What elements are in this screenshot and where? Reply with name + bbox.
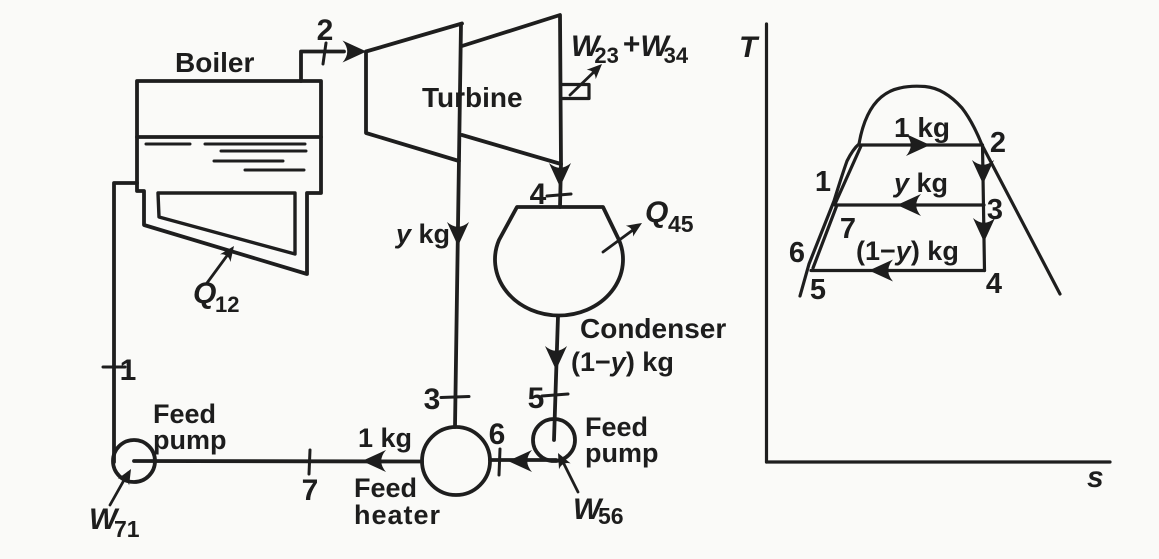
flow arrow 1 kg left xyxy=(362,450,386,472)
svg-text:1: 1 xyxy=(815,166,831,198)
svg-text:heater: heater xyxy=(354,500,441,530)
svg-text:1 kg: 1 kg xyxy=(894,112,950,143)
svg-text:Q: Q xyxy=(645,196,668,229)
svg-text:3: 3 xyxy=(424,383,441,416)
feed heater circle xyxy=(422,427,490,495)
pipe pump to heater xyxy=(490,458,556,462)
svg-text:6: 6 xyxy=(789,237,805,269)
arrowhead Q45 xyxy=(626,218,646,237)
feedwater line heater to left pump xyxy=(134,459,422,463)
state 1 tick xyxy=(103,366,125,369)
pump sliver 1 xyxy=(835,146,861,204)
svg-text:1: 1 xyxy=(120,354,137,387)
flow arrow into turbine at 2 xyxy=(343,41,367,63)
arrowhead Q12 xyxy=(220,242,239,262)
state 6 tick xyxy=(499,449,500,475)
flow arrow top right xyxy=(906,134,930,156)
svg-text:7: 7 xyxy=(302,474,319,507)
heat arrow line Q45 xyxy=(603,227,637,252)
svg-text:y kg: y kg xyxy=(394,219,450,249)
flow arrow bottom left xyxy=(869,260,893,282)
process 7-3 middle line xyxy=(835,203,984,206)
turbine exhaust pipe xyxy=(560,164,561,207)
svg-text:W23+W34: W23+W34 xyxy=(571,28,689,68)
svg-text:T: T xyxy=(739,31,760,64)
feed pump left circle xyxy=(113,440,155,482)
svg-text:s: s xyxy=(1087,461,1104,494)
turbine shaft stub xyxy=(562,85,589,99)
state 4 tick xyxy=(547,194,571,196)
svg-text:Q: Q xyxy=(193,277,216,310)
svg-text:12: 12 xyxy=(215,292,239,317)
arrowhead W71 xyxy=(118,466,137,485)
pump work arrow line W71 xyxy=(110,473,128,505)
svg-text:4: 4 xyxy=(986,268,1002,300)
condensate pipe xyxy=(554,316,558,440)
svg-text:pump: pump xyxy=(585,438,659,468)
svg-text:3: 3 xyxy=(987,194,1003,226)
svg-text:Turbine: Turbine xyxy=(422,82,523,113)
flow arrow pump to heater left xyxy=(508,450,532,472)
svg-text:5: 5 xyxy=(528,382,545,415)
svg-text:(1−y) kg: (1−y) kg xyxy=(571,347,674,377)
steam pipe boiler to turbine xyxy=(301,52,344,82)
boiler furnace tube xyxy=(158,193,295,254)
svg-text:71: 71 xyxy=(114,516,140,542)
process 2-4 right line xyxy=(983,145,985,271)
arrowhead W23 xyxy=(587,59,607,79)
water level dashes xyxy=(146,144,306,170)
state 3 tick xyxy=(441,397,469,398)
turbine HP stage xyxy=(366,24,462,162)
svg-text:5: 5 xyxy=(810,274,826,306)
state 7 tick xyxy=(309,450,310,474)
boiler drum line xyxy=(137,135,321,139)
svg-text:2: 2 xyxy=(990,127,1006,159)
heat arrow line Q12 xyxy=(207,253,229,283)
process 1-2 top line xyxy=(860,143,982,146)
svg-text:Boiler: Boiler xyxy=(175,47,254,78)
feed pump right circle xyxy=(533,419,575,461)
flow arrow 2-3 down xyxy=(972,160,994,184)
saturation dome xyxy=(800,86,1060,296)
pump work arrow line W56 xyxy=(563,462,578,492)
svg-text:4: 4 xyxy=(530,178,547,211)
flow arrow condensate down xyxy=(545,346,567,370)
T axis xyxy=(765,24,768,462)
svg-text:45: 45 xyxy=(668,211,694,237)
svg-text:6: 6 xyxy=(489,418,506,451)
arrowhead W56 xyxy=(552,450,570,469)
condenser xyxy=(495,207,623,315)
svg-text:7: 7 xyxy=(840,213,856,245)
flow arrow y kg down xyxy=(447,222,469,246)
s axis xyxy=(767,460,1111,463)
flow arrow turbine exhaust down xyxy=(549,163,571,187)
interstage and extraction line xyxy=(455,24,461,427)
flow arrow 3-4 down xyxy=(973,218,995,242)
turbine LP stage xyxy=(462,15,561,164)
state 5 tick xyxy=(542,394,568,396)
work arrow line W23+W34 xyxy=(570,68,598,95)
state 2 tick xyxy=(323,43,326,64)
svg-text:Feed: Feed xyxy=(354,473,417,503)
svg-text:Condenser: Condenser xyxy=(580,313,726,344)
svg-text:y kg: y kg xyxy=(892,168,948,198)
svg-text:1 kg: 1 kg xyxy=(358,423,412,453)
feedwater riser pipe xyxy=(114,183,137,462)
svg-text:(1−y) kg: (1−y) kg xyxy=(856,236,959,266)
pump sliver 2 xyxy=(813,205,837,268)
svg-text:56: 56 xyxy=(598,503,624,529)
process 5-4 bottom line xyxy=(811,269,985,272)
svg-text:2: 2 xyxy=(317,14,334,47)
boiler shell xyxy=(137,81,321,274)
flow arrow middle left xyxy=(897,194,921,216)
svg-text:pump: pump xyxy=(153,425,227,455)
